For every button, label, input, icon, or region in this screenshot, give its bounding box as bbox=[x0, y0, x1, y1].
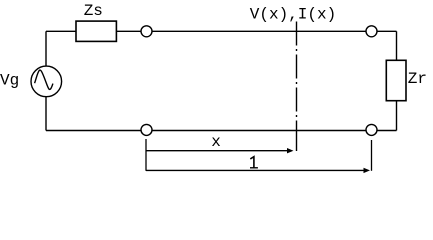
svg-text:Vg: Vg bbox=[0, 72, 19, 90]
svg-text:V(x),I(x): V(x),I(x) bbox=[250, 6, 336, 24]
svg-text:Zs: Zs bbox=[84, 2, 103, 20]
svg-text:Zr: Zr bbox=[408, 70, 427, 88]
svg-text:x: x bbox=[211, 133, 221, 151]
